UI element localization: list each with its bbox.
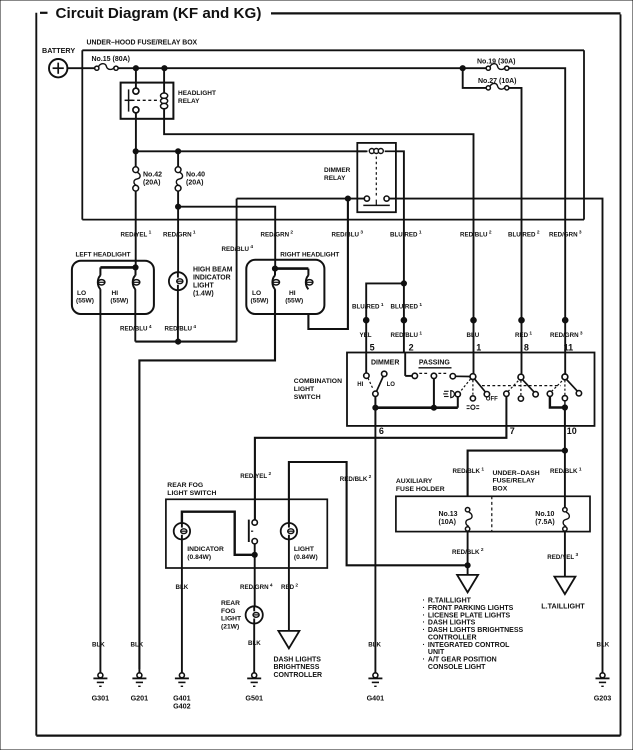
svg-text:RED/BLU 4: RED/BLU 4	[165, 324, 197, 333]
svg-text:INTEGRATED CONTROL: INTEGRATED CONTROL	[428, 642, 510, 649]
svg-text:RED/GRN 2: RED/GRN 2	[261, 230, 294, 239]
wire fuse27 to pin8 BLU/RED2	[509, 88, 522, 353]
fuse No.27 (10A)	[478, 78, 517, 90]
svg-text:R.TAILLIGHT: R.TAILLIGHT	[428, 598, 472, 605]
svg-text:OFF: OFF	[486, 397, 498, 403]
svg-text:DASH LIGHTS BRIGHTNESS: DASH LIGHTS BRIGHTNESS	[428, 627, 524, 634]
svg-text:G203: G203	[594, 694, 612, 703]
ground G501	[253, 669, 255, 673]
svg-text:BOX: BOX	[493, 485, 508, 492]
svg-text:RED/GRN 1: RED/GRN 1	[163, 230, 196, 239]
wire RED/BLU3 to right headlight HI	[308, 199, 348, 329]
wire right LO to G201	[139, 289, 275, 669]
fuse No.19 (30A)	[477, 58, 516, 70]
svg-text:DASH LIGHTS: DASH LIGHTS	[428, 620, 476, 627]
svg-text:RED/GRN 3: RED/GRN 3	[549, 230, 582, 239]
fuse No.15 (80A)	[92, 56, 131, 70]
svg-text:·: ·	[423, 625, 425, 634]
node fuse40 feed	[176, 149, 181, 154]
svg-text:No.40: No.40	[186, 171, 205, 178]
svg-text:LIGHT: LIGHT	[294, 546, 315, 553]
svg-text:LO: LO	[387, 382, 396, 388]
svg-text:1: 1	[476, 343, 481, 353]
node fog switch output	[252, 552, 257, 557]
svg-text:G501: G501	[245, 694, 263, 703]
svg-text:(21W): (21W)	[221, 623, 239, 630]
wire relay switch output to fuse bus	[135, 113, 137, 151]
switch linkage dashed	[482, 385, 561, 387]
svg-text:BLK: BLK	[368, 642, 381, 649]
svg-text:PASSING: PASSING	[419, 359, 451, 366]
wire fuse19 to pin11 RED/GRN3	[509, 68, 565, 352]
svg-text:RED/YEL 2: RED/YEL 2	[240, 471, 271, 480]
wire RED/GRN1 to high beam indicator	[177, 207, 179, 273]
connector RED/BLU1	[401, 317, 407, 323]
wire pin6 to ground G401	[374, 408, 376, 426]
svg-text:·: ·	[423, 640, 425, 649]
svg-text:FRONT PARKING LIGHTS: FRONT PARKING LIGHTS	[428, 605, 514, 612]
svg-text:·: ·	[423, 655, 425, 664]
svg-text:CONSOLE LIGHT: CONSOLE LIGHT	[428, 664, 486, 671]
svg-text:BLK: BLK	[597, 642, 610, 649]
node fuse 19/27 feed	[460, 66, 465, 71]
svg-text:RED/GRN 4: RED/GRN 4	[240, 583, 273, 592]
svg-text:(55W): (55W)	[76, 298, 94, 305]
svg-text:BLK: BLK	[248, 640, 261, 647]
rear fog light	[221, 600, 263, 630]
svg-text:LICENSE PLATE LIGHTS: LICENSE PLATE LIGHTS	[428, 612, 511, 619]
svg-text:G201: G201	[131, 694, 149, 703]
svg-text:RED/YEL 1: RED/YEL 1	[121, 230, 152, 239]
wire indicator to bus	[177, 290, 179, 341]
svg-text:LO: LO	[252, 290, 261, 297]
wire RED2 to brightness controller	[288, 539, 290, 631]
node relay switch feed	[133, 66, 138, 71]
svg-text:2: 2	[409, 343, 414, 353]
node RED/GRN branch	[176, 204, 181, 209]
svg-text:LO: LO	[77, 290, 86, 297]
svg-text:LIGHT: LIGHT	[221, 616, 242, 623]
wire RED/GRN2 to right headlight	[178, 207, 275, 269]
svg-text:BLU/RED 1: BLU/RED 1	[391, 302, 423, 311]
L.taillight arrow	[541, 577, 585, 611]
svg-text:(55W): (55W)	[251, 298, 269, 305]
svg-text:RIGHT HEADLIGHT: RIGHT HEADLIGHT	[280, 252, 339, 259]
node indicator join	[176, 339, 181, 344]
svg-text:UNDER–HOOD FUSE/RELAY BOX: UNDER–HOOD FUSE/RELAY BOX	[87, 40, 198, 47]
svg-text:BLK: BLK	[176, 584, 189, 591]
svg-text:(0.84W): (0.84W)	[187, 554, 211, 561]
wire RED/BLU4 drop to high-beam bus	[236, 199, 238, 342]
svg-text:RELAY: RELAY	[178, 98, 200, 105]
svg-text:BLU/RED 2: BLU/RED 2	[508, 230, 540, 239]
wire indicator feed loop	[182, 512, 252, 555]
svg-text:HI: HI	[289, 290, 296, 297]
svg-text:RED/BLU 3: RED/BLU 3	[332, 230, 364, 239]
svg-text:HEADLIGHT: HEADLIGHT	[178, 90, 216, 97]
wire fuse10 output RED/YEL3 to L.taillight	[564, 531, 566, 577]
svg-text:Circuit Diagram (KF and KG): Circuit Diagram (KF and KG)	[56, 5, 262, 22]
wire dimmer coil to BLU/RED1	[396, 151, 404, 283]
wire fuse13 output RED/BLK2	[467, 531, 469, 565]
wire fuse40 output	[177, 191, 179, 207]
svg-text:FUSE/RELAY: FUSE/RELAY	[493, 478, 536, 485]
svg-text:DIMMER: DIMMER	[371, 359, 399, 366]
high-beam bus RED/BLU4	[135, 341, 236, 343]
svg-text:11: 11	[564, 343, 574, 353]
svg-text:8: 8	[524, 343, 529, 353]
ground G301	[99, 669, 101, 673]
wire RED/GRN4 to rear fog light	[254, 555, 256, 607]
svg-text:INDICATOR: INDICATOR	[187, 546, 224, 553]
connector RED/GRN3	[562, 317, 568, 323]
svg-text:RED/YEL 3: RED/YEL 3	[547, 552, 578, 561]
high beam indicator light	[169, 266, 233, 297]
node dimmer common	[373, 405, 378, 410]
svg-text:No.42: No.42	[143, 171, 162, 178]
svg-text:COMBINATION: COMBINATION	[294, 378, 342, 385]
svg-text:BATTERY: BATTERY	[42, 46, 75, 55]
under-hood fuse/relay box	[82, 40, 584, 220]
svg-text:RED/BLU 4: RED/BLU 4	[120, 324, 152, 333]
dimmer switch	[357, 353, 399, 408]
svg-text:BLK: BLK	[131, 642, 144, 649]
svg-text:RED/BLU 1: RED/BLU 1	[391, 331, 423, 340]
svg-text:(20A): (20A)	[186, 179, 204, 186]
wire fog light to G501	[253, 624, 255, 670]
svg-text:RED/BLK 2: RED/BLK 2	[452, 547, 484, 556]
wire BLU/RED1 branch to pin5	[366, 281, 406, 353]
svg-text:HIGH BEAM: HIGH BEAM	[193, 266, 233, 273]
wire RED/BLK2 from light bulb	[289, 462, 468, 565]
svg-text:(55W): (55W)	[285, 298, 303, 305]
load list	[423, 596, 524, 671]
wire battery feed	[67, 67, 95, 69]
ground G203	[602, 669, 604, 673]
node passing contact join	[431, 405, 436, 410]
svg-text:UNDER–DASH: UNDER–DASH	[493, 470, 540, 477]
svg-text:RED/BLK 1: RED/BLK 1	[550, 467, 582, 476]
fog switch light bulb	[281, 523, 318, 561]
fuse No.13 (10A)	[439, 508, 473, 532]
wire fuse27 branch	[463, 68, 487, 88]
node fuse42 feed	[133, 149, 138, 154]
wire branch to fuse13	[468, 451, 565, 497]
svg-text:CONTROLLER: CONTROLLER	[274, 672, 323, 679]
svg-text:(0.84W): (0.84W)	[294, 554, 318, 561]
svg-text:BLU: BLU	[467, 332, 480, 339]
wire dimmer relay contact to ground G203	[389, 199, 602, 669]
svg-text:BLU/RED 1: BLU/RED 1	[352, 302, 384, 311]
lighting switch bank 1	[455, 353, 498, 408]
svg-text:LIGHT SWITCH: LIGHT SWITCH	[167, 490, 216, 497]
svg-text:7: 7	[510, 426, 515, 436]
svg-text:LEFT HEADLIGHT: LEFT HEADLIGHT	[76, 251, 131, 258]
node relay coil feed	[162, 66, 167, 71]
svg-text:(10A): (10A)	[439, 519, 457, 526]
node RED/BLU3 branch	[345, 196, 350, 201]
svg-text:G401: G401	[367, 694, 385, 703]
svg-text:BRIGHTNESS: BRIGHTNESS	[274, 664, 320, 671]
ground G201	[138, 669, 140, 673]
svg-text:CONTROLLER: CONTROLLER	[428, 634, 477, 641]
svg-text:(7.5A): (7.5A)	[535, 519, 554, 526]
lighting switch bank 2	[504, 353, 539, 426]
right headlight	[246, 252, 339, 314]
wire left LO to G301	[99, 289, 101, 669]
svg-text:RED/GRN 3: RED/GRN 3	[550, 331, 583, 340]
wire bus to dimmer relay coil	[136, 150, 367, 152]
svg-text:DASH LIGHTS: DASH LIGHTS	[274, 657, 322, 664]
wire headlight relay coil to RED/BLU2 pin1	[164, 119, 473, 353]
svg-text:INDICATOR: INDICATOR	[193, 274, 231, 281]
auxiliary fuse holder / under-dash fuse relay box	[396, 470, 590, 532]
svg-text:HI: HI	[112, 290, 119, 297]
svg-text:RED/BLU 4: RED/BLU 4	[222, 244, 254, 253]
svg-text:BLK: BLK	[92, 642, 105, 649]
fuse No.40 (20A)	[175, 151, 205, 191]
parking light icon	[467, 405, 480, 409]
svg-text:(20A): (20A)	[143, 179, 161, 186]
wire pin7 to RED/YEL2	[255, 426, 507, 520]
svg-text:DIMMER: DIMMER	[324, 167, 351, 174]
svg-text:LIGHT: LIGHT	[294, 386, 315, 393]
svg-text:RED/BLK 1: RED/BLK 1	[453, 467, 485, 476]
wire dimmer relay contact line RED/BLU	[237, 198, 365, 200]
svg-text:REAR FOG: REAR FOG	[167, 482, 203, 489]
svg-text:BLU/RED 1: BLU/RED 1	[390, 230, 422, 239]
wire pin10 to fuses	[564, 426, 566, 507]
svg-text:SWITCH: SWITCH	[294, 394, 321, 401]
wire switch common bus	[375, 406, 457, 409]
rear fog indicator bulb	[174, 523, 224, 561]
fog switch contacts	[249, 520, 258, 555]
svg-text:REAR: REAR	[221, 600, 240, 607]
combination light switch	[294, 353, 595, 426]
svg-text:UNIT: UNIT	[428, 649, 445, 656]
svg-text:HI: HI	[357, 382, 363, 388]
svg-text:No.10: No.10	[535, 511, 554, 518]
connector BLU	[471, 317, 477, 323]
svg-text:AUXILIARY: AUXILIARY	[396, 478, 433, 485]
svg-text:RED/BLU 2: RED/BLU 2	[460, 230, 492, 239]
taillight feed arrow	[467, 565, 469, 575]
fuse No.10 (7.5A)	[535, 508, 569, 532]
headlight icon	[443, 391, 454, 398]
node fuse13 branch	[562, 448, 567, 453]
svg-text:FOG: FOG	[221, 608, 236, 615]
svg-text:L.TAILLIGHT: L.TAILLIGHT	[541, 602, 585, 611]
dash lights brightness controller arrow	[274, 631, 323, 679]
svg-text:No.15 (80A): No.15 (80A)	[92, 56, 131, 63]
svg-text:6: 6	[379, 426, 384, 436]
svg-text:(1.4W): (1.4W)	[193, 290, 214, 297]
lighting switch bank 3	[547, 353, 581, 426]
headlight relay	[121, 68, 216, 119]
svg-text:RELAY: RELAY	[324, 175, 346, 182]
wire left HI RED/BLU4	[134, 289, 136, 342]
ground G401	[374, 669, 376, 673]
wire RED/YEL1 to left headlight	[135, 191, 137, 267]
node taillight feed join	[465, 563, 470, 568]
left headlight	[72, 251, 154, 314]
wire main bus to fuses	[118, 67, 486, 69]
rear fog light switch	[166, 482, 327, 568]
svg-text:No.13: No.13	[439, 511, 458, 518]
svg-text:G301: G301	[92, 694, 110, 703]
connector RED1	[519, 317, 525, 323]
svg-text:G402: G402	[173, 702, 191, 711]
battery	[42, 46, 75, 77]
fuse No.42 (20A)	[133, 151, 162, 191]
page title	[40, 5, 621, 22]
svg-text:FUSE HOLDER: FUSE HOLDER	[396, 486, 445, 493]
svg-text:LIGHT: LIGHT	[193, 282, 214, 289]
dimmer relay	[324, 143, 396, 212]
svg-text:YEL: YEL	[360, 332, 372, 339]
svg-text:(55W): (55W)	[110, 298, 128, 305]
svg-text:5: 5	[370, 343, 375, 353]
ground G401/G402	[181, 669, 183, 673]
passing switch	[405, 353, 455, 408]
svg-text:RED/BLK 2: RED/BLK 2	[340, 474, 372, 483]
wire indicator to ground G401/G402	[181, 539, 183, 669]
svg-text:A/T GEAR POSITION: A/T GEAR POSITION	[428, 657, 497, 664]
svg-text:10: 10	[567, 426, 577, 436]
connector YEL	[363, 317, 369, 323]
